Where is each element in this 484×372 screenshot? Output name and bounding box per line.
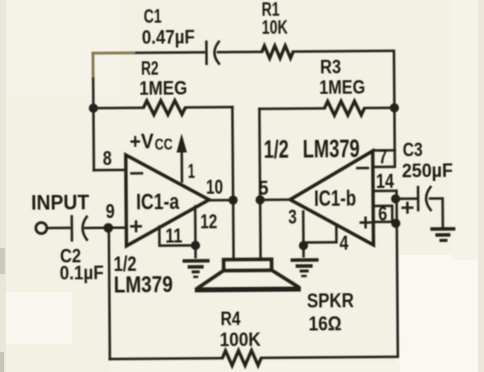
svg-text:3: 3 bbox=[288, 207, 297, 229]
node: pin 9 / feedback junction bbox=[103, 223, 113, 233]
wire: R3 rail corner vertical x=260 down to speaker bbox=[259, 109, 260, 259]
svg-text:C1: C1 bbox=[144, 7, 162, 28]
wire scan tint top-left corner bbox=[93, 53, 134, 76]
ground right of C3 bbox=[430, 229, 455, 241]
svg-text:1/2: 1/2 bbox=[264, 136, 289, 164]
svg-text:IC1-b: IC1-b bbox=[314, 186, 356, 211]
label 1/2 LM379 left bbox=[114, 253, 173, 298]
svg-text:C3: C3 bbox=[403, 140, 423, 161]
wire: vertical from R3 node down to pin 7 tab bbox=[393, 108, 396, 150]
capacitor C1 bbox=[142, 6, 219, 64]
wire: pin 5 lead bbox=[260, 198, 290, 201]
wire: output vertical x=233 from R2 rail down to speaker bbox=[232, 107, 233, 259]
ground under IC1-a bbox=[182, 245, 209, 277]
svg-text:14: 14 bbox=[376, 171, 395, 193]
svg-text:INPUT: INPUT bbox=[31, 191, 89, 214]
svg-text:R2: R2 bbox=[141, 59, 159, 80]
label 1/2 LM379 right bbox=[264, 135, 360, 164]
svg-text:1MEG: 1MEG bbox=[319, 78, 365, 99]
pin 6 tab bbox=[373, 203, 395, 225]
wire: R3 rail left bbox=[259, 107, 324, 110]
capacitor C2 bbox=[59, 216, 104, 284]
resistor R3 bbox=[319, 57, 365, 115]
svg-text:10K: 10K bbox=[262, 18, 288, 39]
wire: output of IC1-a to node bbox=[209, 199, 233, 202]
plus input mark bbox=[131, 222, 141, 232]
plus polarity mark bbox=[403, 203, 413, 213]
svg-text:7: 7 bbox=[379, 146, 388, 168]
node: pin 6 junction bbox=[391, 219, 400, 228]
node: pin 14 / C3 junction bbox=[391, 194, 400, 203]
plus mark bbox=[361, 218, 371, 228]
wire: R2 rail right to output vertical bbox=[185, 106, 232, 109]
svg-text:4: 4 bbox=[339, 233, 349, 255]
svg-text:100K: 100K bbox=[220, 330, 261, 351]
svg-text:LM379: LM379 bbox=[303, 135, 360, 163]
svg-text:+V: +V bbox=[130, 130, 154, 153]
wire: input to C2 bbox=[47, 227, 69, 230]
op-amp U1b IC1-b triangle (mirrored) bbox=[290, 151, 374, 246]
wire: pin 4 lead (L-shape) bbox=[303, 226, 336, 242]
wire: bottom rail right bbox=[260, 191, 398, 358]
resistor R2 bbox=[139, 58, 187, 114]
svg-text:8: 8 bbox=[103, 148, 112, 170]
wire: C3 branch bbox=[395, 197, 416, 200]
wire: pin 11 lead (L-shape) bbox=[159, 226, 195, 245]
wire: R3 rail right bbox=[364, 107, 394, 110]
wire: feedback vertical from pin 9 node to bottom rail bbox=[109, 228, 110, 359]
svg-text:1MEG: 1MEG bbox=[139, 78, 187, 99]
svg-text:CC: CC bbox=[155, 137, 173, 154]
svg-text:LM379: LM379 bbox=[114, 271, 173, 297]
resistor R4 bbox=[219, 309, 261, 366]
wire: left vertical (pin 8 node) bbox=[92, 53, 95, 170]
node: R3 / top-rail junction bbox=[390, 103, 399, 112]
svg-text:9: 9 bbox=[106, 201, 115, 223]
svg-text:12: 12 bbox=[200, 211, 217, 233]
svg-text:6: 6 bbox=[378, 203, 387, 225]
wire: top rail right segment + right-top vertical down to R3 node bbox=[293, 51, 394, 109]
wire: pin 8 lead bbox=[94, 169, 126, 172]
wire: pin 12 lead down bbox=[194, 206, 197, 245]
svg-text:250µF: 250µF bbox=[402, 161, 453, 182]
pin 14 stub bbox=[373, 190, 395, 193]
node: pin8/R2 junction bbox=[89, 104, 98, 113]
capacitor C3 bbox=[402, 140, 454, 213]
op-amp U1a IC1-a triangle bbox=[126, 154, 210, 246]
svg-text:SPKR: SPKR bbox=[307, 290, 355, 312]
pin 7 tab bbox=[373, 146, 395, 168]
svg-text:5: 5 bbox=[258, 178, 268, 200]
node: pin11/12 junction bbox=[191, 241, 200, 250]
wire: C3 to ground bbox=[430, 198, 443, 226]
wire: pin 3 lead bbox=[302, 212, 305, 246]
node: pin 5 junction bbox=[255, 195, 264, 204]
svg-text:1: 1 bbox=[188, 161, 195, 183]
svg-text:R3: R3 bbox=[320, 57, 341, 78]
svg-text:R4: R4 bbox=[220, 309, 241, 330]
wire: C2 to pin 9 bbox=[85, 226, 126, 229]
resistor R1 bbox=[262, 0, 293, 58]
wire: top rail left segment (pin8 node to C1) bbox=[93, 51, 204, 54]
power +Vcc arrow pin 1 bbox=[130, 130, 188, 182]
svg-text:0.47µF: 0.47µF bbox=[142, 27, 195, 48]
ground under IC1-b bbox=[290, 245, 318, 276]
node: pin3/4 junction bbox=[299, 241, 308, 250]
svg-text:11: 11 bbox=[165, 225, 182, 247]
svg-text:0.1µF: 0.1µF bbox=[60, 263, 104, 284]
wire: top rail middle segment (C1 to R1) bbox=[218, 51, 262, 54]
wire: bottom rail left bbox=[110, 357, 222, 360]
node: IC1-a output pin 10 bbox=[228, 195, 237, 204]
INPUT terminal bbox=[31, 191, 89, 233]
svg-text:16Ω: 16Ω bbox=[309, 313, 342, 335]
speaker SPKR bbox=[195, 259, 355, 337]
wire: R2 rail left bbox=[93, 107, 143, 110]
minus mark bbox=[357, 167, 367, 170]
minus input mark bbox=[131, 172, 141, 175]
svg-text:10: 10 bbox=[206, 177, 223, 199]
svg-text:IC1-a: IC1-a bbox=[136, 189, 180, 214]
